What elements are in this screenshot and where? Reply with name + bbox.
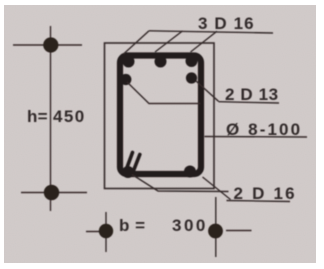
- stirrup hook 1 (bottom-left 135° hook): [126, 153, 133, 172]
- svg-text:2 D 16: 2 D 16: [234, 184, 297, 203]
- svg-text:b =: b =: [119, 216, 146, 235]
- h dimension top dot: [43, 37, 58, 52]
- rebar top-right (D16): [186, 55, 198, 67]
- internal leader from mid-left bar (2 D 13): [127, 82, 201, 104]
- rebar top-left (D16): [123, 56, 135, 68]
- b dimension right tick: [226, 230, 252, 232]
- h dimension top tick: [13, 44, 82, 46]
- b dimension left dot: [99, 224, 113, 238]
- rebar bottom-left (D16): [122, 166, 134, 178]
- h dimension vertical line: [50, 26, 52, 211]
- leader A to 2 D 16 (from bottom-left corner, with elbow): [132, 175, 229, 192]
- rebar top-center (D16): [155, 56, 167, 68]
- b dimension left tick: [86, 231, 113, 233]
- svg-text:h=: h=: [27, 107, 48, 126]
- leader / underline of Ø 8-100 label (points at stirrup wall): [205, 136, 308, 139]
- svg-text:300: 300: [172, 216, 208, 235]
- underline of 2 D 16 label: [227, 201, 291, 202]
- svg-text:2 D 13: 2 D 13: [225, 85, 279, 104]
- b dimension left vertical: [105, 212, 107, 252]
- rebar mid-left (D13): [120, 74, 131, 85]
- svg-text:3 D 16: 3 D 16: [198, 14, 255, 33]
- svg-text:Ø 8-100: Ø 8-100: [226, 120, 302, 139]
- leader line to 3 D 16 (from top-right bar): [191, 31, 218, 52]
- stirrup (thick rounded rectangle): [120, 56, 201, 175]
- b dimension right vertical: [215, 197, 217, 257]
- h dimension bottom dot: [44, 185, 59, 200]
- leader B to 2 D 16 (from bottom-right corner): [203, 177, 231, 200]
- svg-text:450: 450: [53, 107, 86, 126]
- underline of 2 D 13 label: [219, 102, 280, 103]
- rebar mid-right (D13): [186, 72, 197, 83]
- leader line to 3 D 16 (from top-center bar): [155, 31, 183, 52]
- underline of 3 D 16 label: [149, 31, 273, 33]
- leader line to 3 D 16 (from top-left bar): [124, 31, 150, 54]
- b dimension right dot: [208, 224, 223, 239]
- stirrup hook 2 (bottom-left 135° hook): [133, 155, 140, 173]
- rebar bottom-right (D16): [184, 166, 196, 178]
- h dimension bottom tick: [21, 192, 87, 194]
- concrete outline (outer rectangle of beam section): [105, 43, 215, 189]
- leader from mid-right bar to 2 D 13 label: [196, 81, 219, 101]
